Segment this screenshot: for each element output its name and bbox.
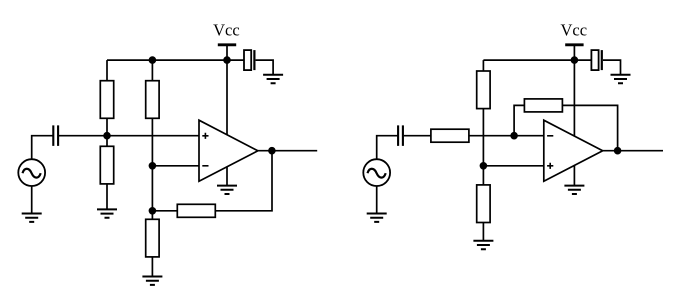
wire: U1 output line [258,150,317,152]
wire: Vcc node to bypass cap C2 [227,59,244,61]
bypass capacitor C4 [591,50,601,70]
wire: Vcc rail down into U1 [226,60,228,140]
ground under C2 [263,75,283,83]
wire: C3 to series resistor R6 [404,135,431,137]
noninverting node dot [480,162,488,170]
Vcc supply symbol (right) [561,20,588,60]
resistor R1 (upper bias) [100,81,113,119]
wire: R8 to ground [482,223,484,241]
feedback node dot [149,207,157,215]
wire: top rail down to R7 [482,60,484,71]
wire: R4 to U1 output [215,151,272,211]
wire: feedback node to R4 [152,210,177,212]
wire: right source top to coupling cap [377,136,398,159]
ground under V1 [22,214,42,222]
feedback resistor R9 [524,99,562,112]
Vcc supply symbol (left) [213,20,240,60]
svg-text:Vcc: Vcc [561,20,588,39]
coupling capacitor C3 [398,125,403,145]
wire: C4 to ground [603,60,621,75]
Vcc junction dot (left) [223,56,231,64]
wire: column R3 to inverting node [151,60,153,81]
wire: U2 ground pin [573,164,575,186]
wire: R2 to ground [106,184,108,210]
AC source V1 [18,159,45,186]
bypass capacitor C2 [244,50,254,70]
wire: node to R8 [482,166,484,185]
wire: Vcc rail down into U2 [573,60,575,140]
output junction dot U2 [614,147,622,155]
op-amp U2 [544,120,603,181]
resistor R7 (upper bias) [477,71,490,109]
wire: left source top to coupling cap [32,136,53,159]
wire: C2 to ground [256,60,274,75]
wire: inverting node to U1 inverting input [152,165,199,167]
node A junction dot [103,132,111,140]
ground under R2 [97,209,117,217]
op-amp U1 [199,120,258,181]
wire: U2 output line [603,150,663,152]
wire: noninverting node to U2 [483,165,543,167]
wire: U1 ground pin [226,164,228,186]
junction dot on top rail at R3 [149,56,157,64]
ground under V2 [367,214,387,222]
Vcc junction dot (right) [571,56,579,64]
resistor R2 (lower bias) [100,146,113,184]
ground under R5 [142,277,162,285]
ground under U2 [564,186,584,194]
wire: C1 to op-amp U1 noninverting input [59,135,199,137]
wire: column R1-node A-R2 [106,60,108,147]
wire: R9 to U2 output [562,105,617,150]
series resistor R6 [431,129,469,142]
resistor R5 (to ground) [146,219,159,257]
svg-text:Vcc: Vcc [213,20,240,39]
inverting-input node dot [149,162,157,170]
wire: top rail right circuit [483,59,574,61]
AC source V2 [363,159,390,186]
feedback resistor R4 [177,204,215,217]
wire: V2 bottom to ground [376,186,378,213]
wire: top rail from R1 to Vcc node [107,59,227,61]
output junction dot U1 [268,147,276,155]
wire: V1 bottom to ground [31,186,33,213]
wire: R6 to U2 inverting input [469,135,544,137]
resistor R8 (to ground) [477,185,490,223]
wire: inverting node up to feedback R9 [514,105,524,135]
wire: R5 to ground [151,257,153,277]
ground under R8 [473,241,493,249]
resistor R3 (from top rail) [146,81,159,119]
wire: Vcc node to bypass cap C4 [574,59,591,61]
wire: R3 bottom through to feedback node [151,118,153,219]
coupling capacitor C1 [53,125,58,145]
inverting node dot (right) [510,132,518,140]
ground under C4 [611,75,631,83]
wire: R7 through to noninverting node [482,109,484,166]
ground under U1 [217,186,237,194]
